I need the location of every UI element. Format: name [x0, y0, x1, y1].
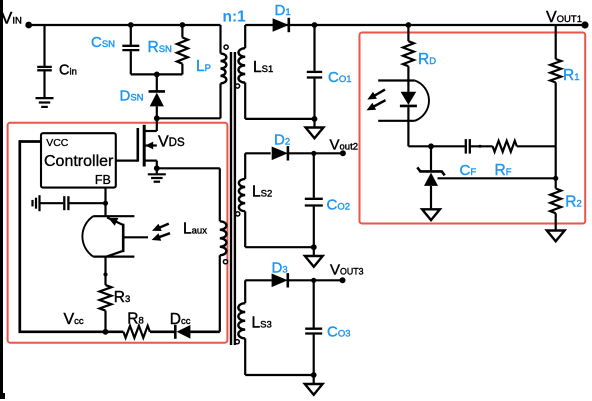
- svg-text:VCC: VCC: [46, 137, 69, 149]
- svg-text:Controller: Controller: [44, 153, 114, 170]
- svg-text:n:1: n:1: [223, 9, 247, 26]
- svg-text:VDS: VDS: [158, 133, 185, 150]
- svg-text:FB: FB: [95, 173, 111, 187]
